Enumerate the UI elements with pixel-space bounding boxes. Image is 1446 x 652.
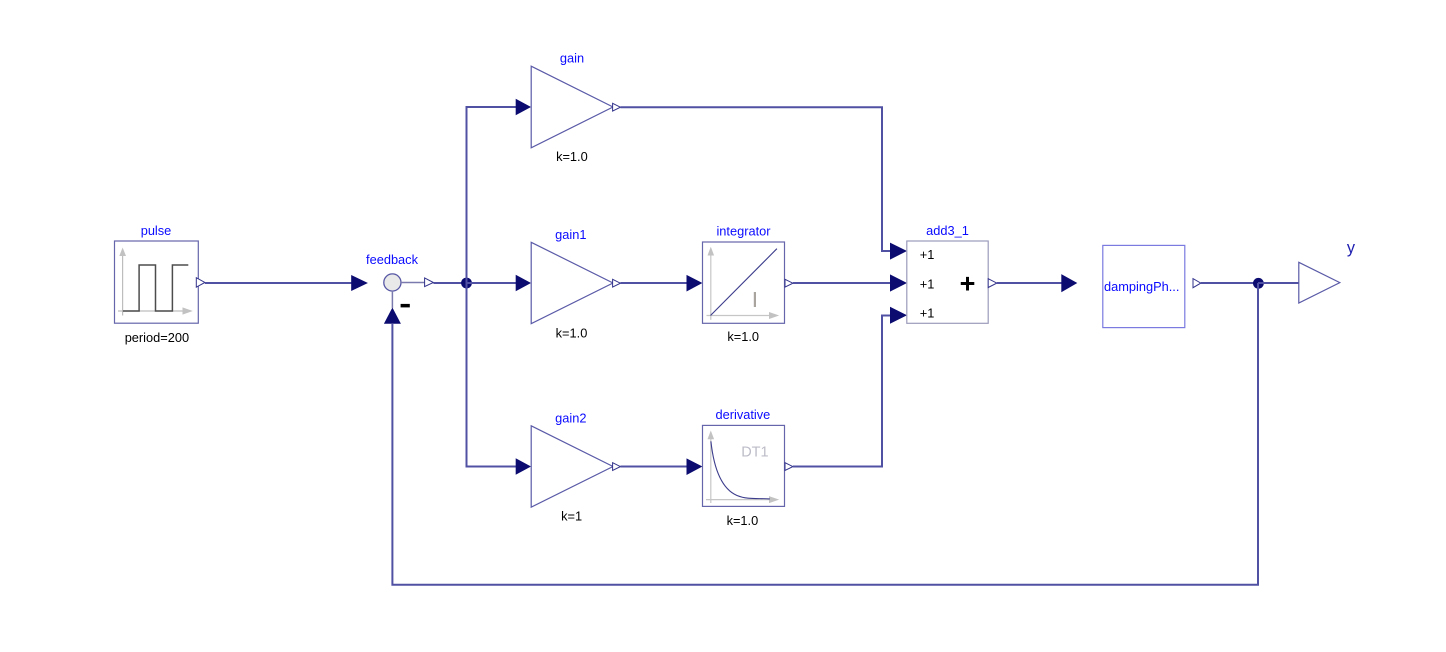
svg-text:k=1.0: k=1.0: [556, 325, 588, 340]
arrowhead into add3_1 u1: [890, 243, 907, 260]
dampingPhasor block: [1103, 245, 1185, 327]
wire gain to add3_1 top: [620, 107, 890, 251]
add3_1 block: [907, 241, 988, 323]
pulse source block P1: [115, 241, 199, 323]
svg-text:gain: gain: [560, 51, 584, 66]
gain output port: [613, 103, 621, 111]
dampingPhasor output port: [1193, 279, 1201, 288]
wire pulse to feedback: [205, 282, 352, 284]
svg-text:period=200: period=200: [125, 330, 189, 345]
wire integrator to add3_1 middle: [793, 282, 891, 284]
wire node B to output y: [1258, 282, 1299, 284]
svg-text:k=1.0: k=1.0: [727, 329, 759, 344]
svg-text:+: +: [960, 269, 976, 299]
svg-text:pulse: pulse: [141, 223, 172, 238]
node A junction dot: [461, 278, 472, 289]
feedback minus input stem: [391, 291, 393, 308]
wire to gain: [466, 106, 517, 108]
svg-text:integrator: integrator: [716, 223, 771, 238]
svg-text:k=1.0: k=1.0: [727, 513, 759, 528]
wire dampingPhasor to node B: [1201, 282, 1258, 284]
wire gain1 to integrator: [620, 282, 687, 284]
svg-text:gain2: gain2: [555, 410, 586, 425]
add3_1 output port: [988, 279, 997, 288]
arrowhead into gain: [516, 99, 531, 115]
arrowhead into integrator: [687, 275, 703, 292]
svg-text:+1: +1: [920, 247, 935, 262]
arrowhead into feedback: [351, 275, 368, 291]
wire to gain1: [467, 282, 517, 284]
svg-text:k=1.0: k=1.0: [556, 149, 588, 164]
gain1 output port: [613, 279, 621, 287]
arrowhead into gain1: [516, 275, 531, 291]
svg-text:DT1: DT1: [741, 444, 768, 460]
arrowhead up into feedback minus input: [384, 308, 401, 324]
derivative output port: [785, 463, 793, 471]
derivative block: [703, 425, 785, 506]
svg-text:+1: +1: [920, 276, 935, 291]
feedback output port: [425, 278, 434, 287]
arrowhead into dampingPhasor: [1061, 274, 1077, 292]
wire add3_1 to dampingPhasor: [997, 282, 1062, 284]
integrator block: [703, 242, 785, 323]
gain1 block triangle: [531, 242, 613, 323]
wire gain2 to derivative: [620, 466, 687, 468]
feedback output stem: [401, 282, 425, 284]
node B junction dot: [1253, 278, 1264, 289]
svg-text:add3_1: add3_1: [926, 223, 969, 238]
integrator output port: [785, 279, 793, 287]
arrowhead into derivative: [687, 458, 703, 475]
svg-text:feedback: feedback: [366, 252, 419, 267]
arrowhead into add3_1 u3: [890, 307, 907, 324]
wire derivative to add3_1 bottom: [793, 316, 891, 467]
svg-text:+1: +1: [920, 306, 935, 321]
pulse output port: [196, 278, 205, 288]
wire to gain2: [466, 466, 517, 468]
wire feedback return loop: [392, 283, 1258, 585]
svg-text:dampingPh...: dampingPh...: [1104, 279, 1179, 294]
arrowhead into gain2: [516, 458, 531, 474]
output connector y triangle: [1299, 262, 1340, 303]
gain2 block triangle: [531, 426, 613, 507]
minus sign: [401, 304, 410, 308]
gain block triangle: [531, 66, 613, 148]
feedback summing junction: [384, 274, 401, 291]
wire trunk vertical: [466, 107, 468, 467]
gain2 output port: [613, 463, 621, 471]
wire feedback to node A: [433, 282, 463, 284]
svg-text:y: y: [1347, 239, 1356, 257]
arrowhead into add3_1 u2: [890, 274, 907, 291]
svg-text:k=1: k=1: [561, 509, 582, 524]
svg-text:derivative: derivative: [716, 407, 771, 422]
svg-text:gain1: gain1: [555, 227, 586, 242]
